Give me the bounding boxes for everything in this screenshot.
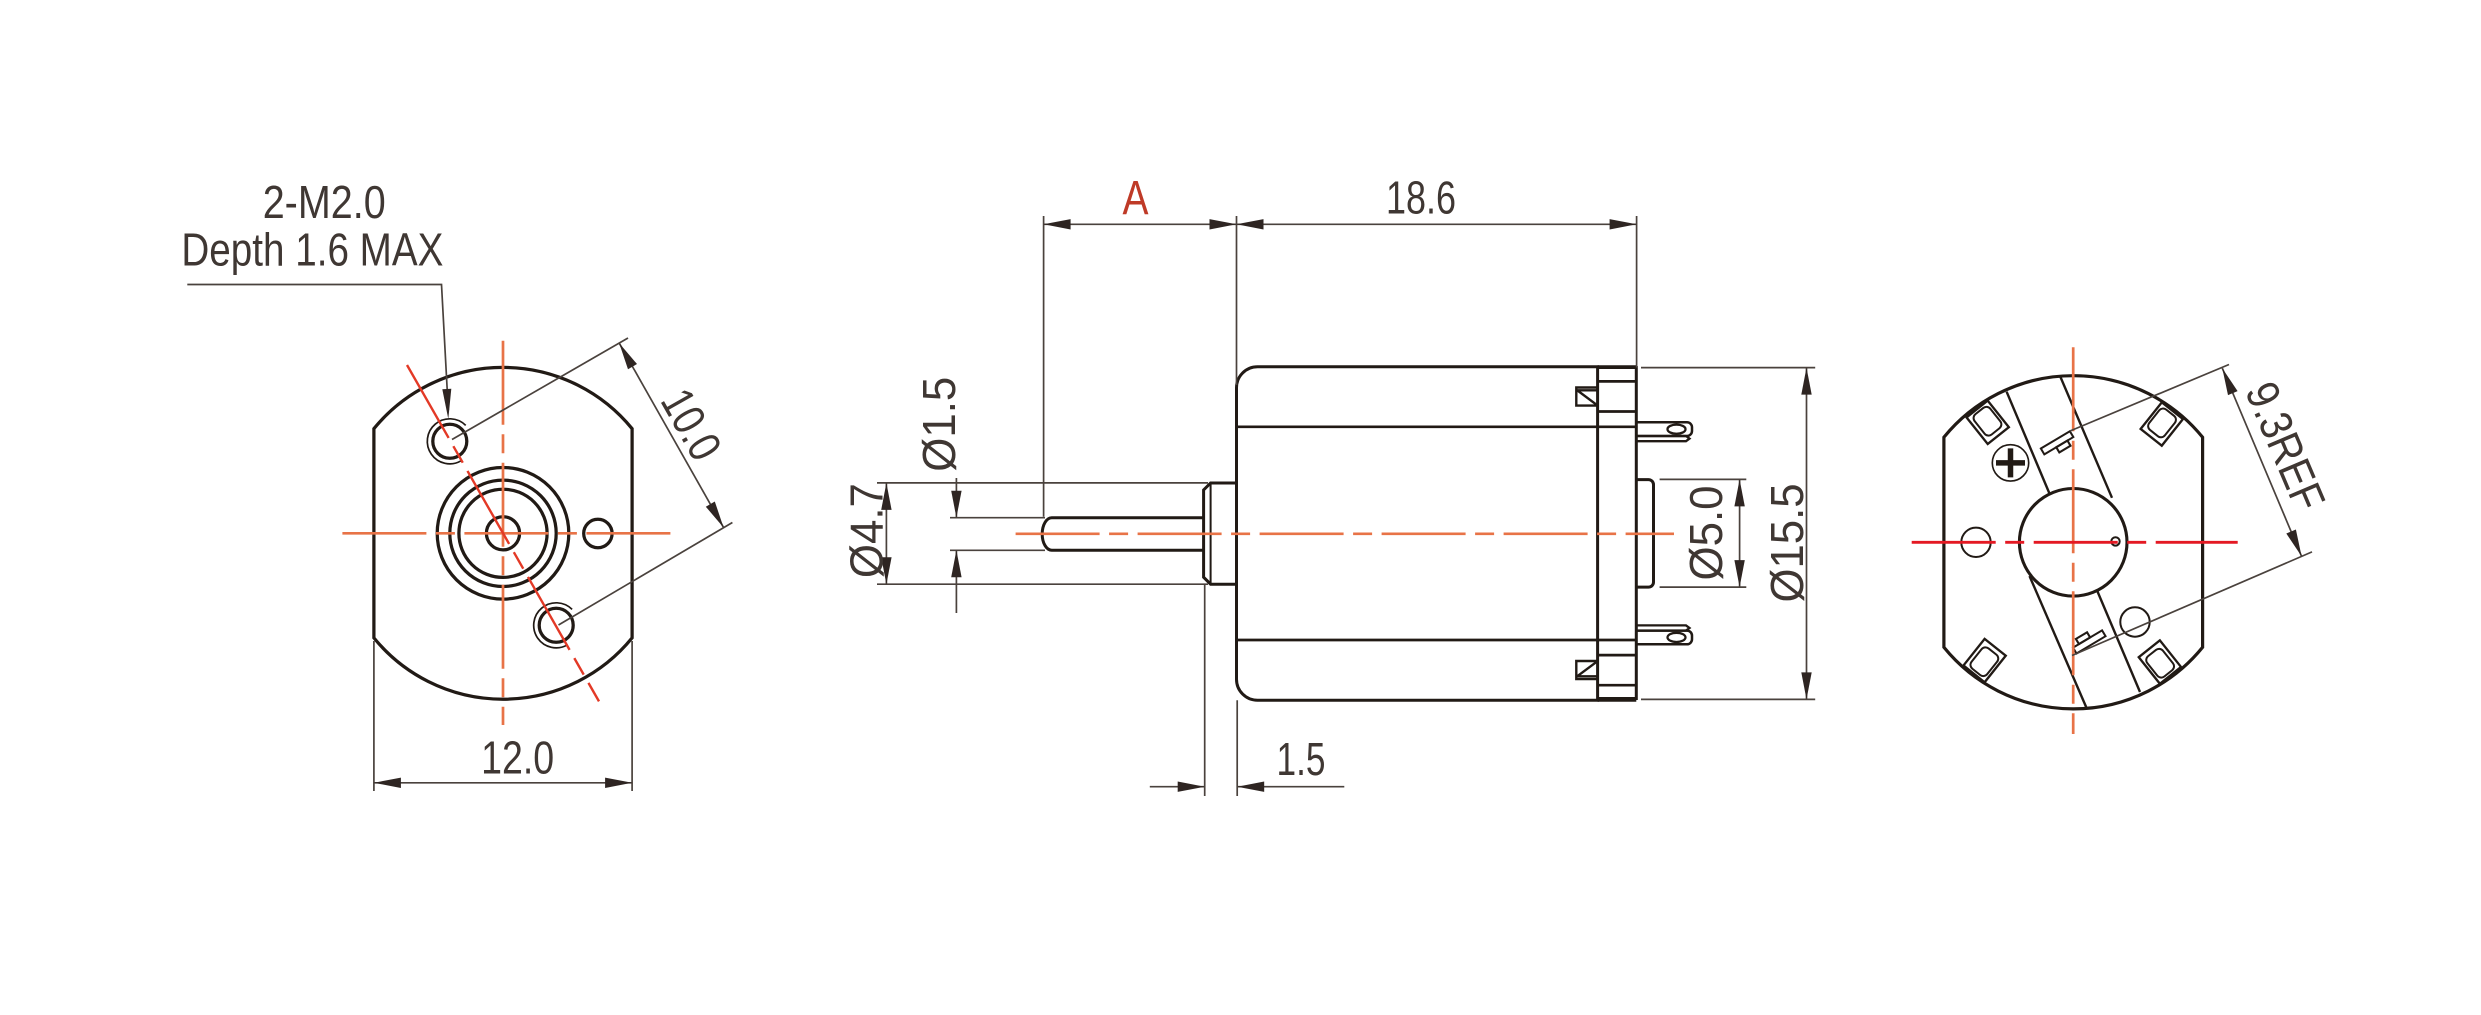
front shaft circle [486,517,519,550]
dim 18.6 arrow right [1610,219,1637,229]
dim 12.0 extension line left [373,641,375,791]
svg-text:1.5: 1.5 [1277,733,1326,785]
corner tab top-right [2141,402,2183,445]
dim 10.0 arrow lower [706,502,724,528]
dim 1.5 arrow left [1178,782,1205,792]
end cap outline [1598,368,1637,699]
dim D4.7 label [841,483,893,578]
brush seam line bottom-right [2098,592,2141,693]
cap step line bottom 1 [1598,654,1637,657]
terminal top hole [1668,425,1686,434]
terminal bottom hole [1668,633,1686,642]
rear view outline (circle with side flats) [1944,376,2203,709]
terminal bottom [1637,631,1692,645]
dim A arrow right [1210,219,1237,229]
front bearing boss outer circle [437,468,569,600]
dim 18.6 dimension line [1237,223,1637,225]
terminal rivet bottom [2070,625,2106,653]
leader line [187,285,448,411]
brush seam line bottom-left [2030,576,2087,707]
rear center boss circle [2019,489,2127,597]
dim A extension line left [1043,216,1045,517]
dim 9.3REF label [2235,374,2335,518]
corner tab bottom-left [1963,639,2005,682]
dim 1.5 dimension line right [1237,786,1344,788]
terminal bottom lip [1637,625,1690,630]
corner tab bottom-right [2139,640,2181,683]
dim D5.0 label [1680,486,1732,581]
dim 10.0 extension line lower [559,523,733,626]
dim 1.5 extension line left [1204,584,1206,796]
dim D1.5 extension line top [950,517,1045,519]
crimp tab top [1576,388,1597,406]
dim 18.6 arrow left [1237,219,1264,229]
dim A dimension line [1044,223,1237,225]
dim D15.5 arrow top [1801,368,1811,395]
motor body [1237,367,1598,700]
dim D1.5 arrow bottom [951,550,961,577]
dim D1.5 label [913,377,965,472]
svg-text:Ø4.7: Ø4.7 [841,483,893,578]
dim D1.5 arrow top [951,491,961,518]
dim D4.7 dimension line [885,483,887,584]
dim 10.0 extension line upper [452,338,628,440]
dim D1.5 dimension line upper [955,478,957,518]
dim D5.0 extension line top [1660,478,1747,480]
cap step line top 1 [1598,380,1637,383]
dim 1.5 arrow right [1237,782,1264,792]
dim 9.3REF extension line upper [2070,365,2229,432]
body top edge over cap [1598,365,1637,368]
dim D15.5 extension line bottom [1641,698,1815,700]
corner tab top-left [1967,401,2009,444]
cap step line bottom 2 [1598,684,1637,687]
dim 9.3REF arrow lower [2286,530,2301,557]
dim 1.5 dimension line left [1150,786,1205,788]
mounting hole bottom-right [539,608,573,642]
dim D5.0 arrow bottom [1734,560,1744,587]
crimp tab bottom [1576,661,1597,679]
dim 1.5 extension line right [1236,700,1238,796]
shaft [1042,518,1203,551]
dim D4.7 extension line top [877,482,1208,484]
thread arc bottom-right hole [534,603,572,648]
dim D4.7 arrow top [881,483,891,510]
shaft bushing [1204,483,1237,584]
front view outline (circle with side flats) [374,367,632,699]
leader arrow [442,389,451,419]
dim D5.0 dimension line [1739,479,1741,587]
dim 18.6 extension line right [1636,216,1638,368]
phillips screw circle [1992,445,2028,481]
rear small hole left [1961,528,1990,557]
brush seam line top-left [2007,392,2050,493]
svg-text:Ø5.0: Ø5.0 [1680,486,1732,581]
body bottom edge over cap [1598,699,1637,702]
rear bearing boss [1637,480,1654,587]
dim 10.0 arrow upper [619,343,637,369]
svg-text:Depth 1.6 MAX: Depth 1.6 MAX [181,223,443,275]
rear small hole lower right [2120,607,2149,636]
svg-text:Ø15.5: Ø15.5 [1761,484,1813,603]
dim 12.0 arrow left [374,778,401,788]
terminal rivet top [2041,431,2077,459]
dim A extension line right [1236,216,1238,385]
svg-text:18.6: 18.6 [1386,172,1456,224]
dim D4.7 extension line bottom [877,583,1208,585]
front small pilot hole right [584,519,612,547]
svg-text:A: A [1123,172,1149,225]
dim D1.5 extension line bottom [950,549,1045,551]
dim 12.0 dimension line [374,782,632,784]
dim 9.3REF dimension line [2222,368,2301,556]
brush seam line top-right [2060,377,2112,498]
rear vertical centerline [2072,347,2075,734]
mounting hole top-left [433,424,467,458]
dim 12.0 arrow right [605,778,632,788]
svg-text:12.0: 12.0 [481,732,554,784]
terminal top lip [1637,436,1690,441]
dim 10.0 label [651,380,732,469]
terminal top [1637,422,1692,436]
rear horizontal centerline [1912,541,2238,544]
dim D1.5 dimension line lower [955,550,957,613]
dim 9.3REF extension line lower [2072,552,2312,656]
body flat line lower [1237,639,1637,642]
front horizontal centerline [342,532,671,535]
dim A arrow left [1044,219,1071,229]
dim D15.5 arrow bottom [1801,672,1811,699]
front diagonal hole centerline [407,365,599,701]
svg-text:Ø1.5: Ø1.5 [913,377,965,472]
front vertical centerline [502,341,505,725]
side view centerline [1016,532,1674,535]
body flat line upper [1237,425,1637,428]
rear tiny hole [2111,537,2119,545]
dim D4.7 arrow bottom [881,557,891,584]
dim 9.3REF arrow upper [2222,368,2237,395]
dim D15.5 label [1761,484,1813,603]
front boss middle circle [450,480,556,586]
cap step line top 2 [1598,410,1637,413]
svg-text:2-M2.0: 2-M2.0 [263,176,386,228]
dim D5.0 arrow top [1734,479,1744,506]
dim D5.0 extension line bottom [1660,586,1747,588]
front boss inner circle [459,489,547,577]
phillips screw cross [1996,448,2025,477]
dim D15.5 extension line top [1641,367,1815,369]
dim 10.0 dimension line [619,343,723,527]
dim D15.5 dimension line [1806,368,1808,700]
dim 12.0 extension line right [631,641,633,791]
bushing inner edge [1210,483,1212,584]
thread arc top-left hole [427,419,465,464]
